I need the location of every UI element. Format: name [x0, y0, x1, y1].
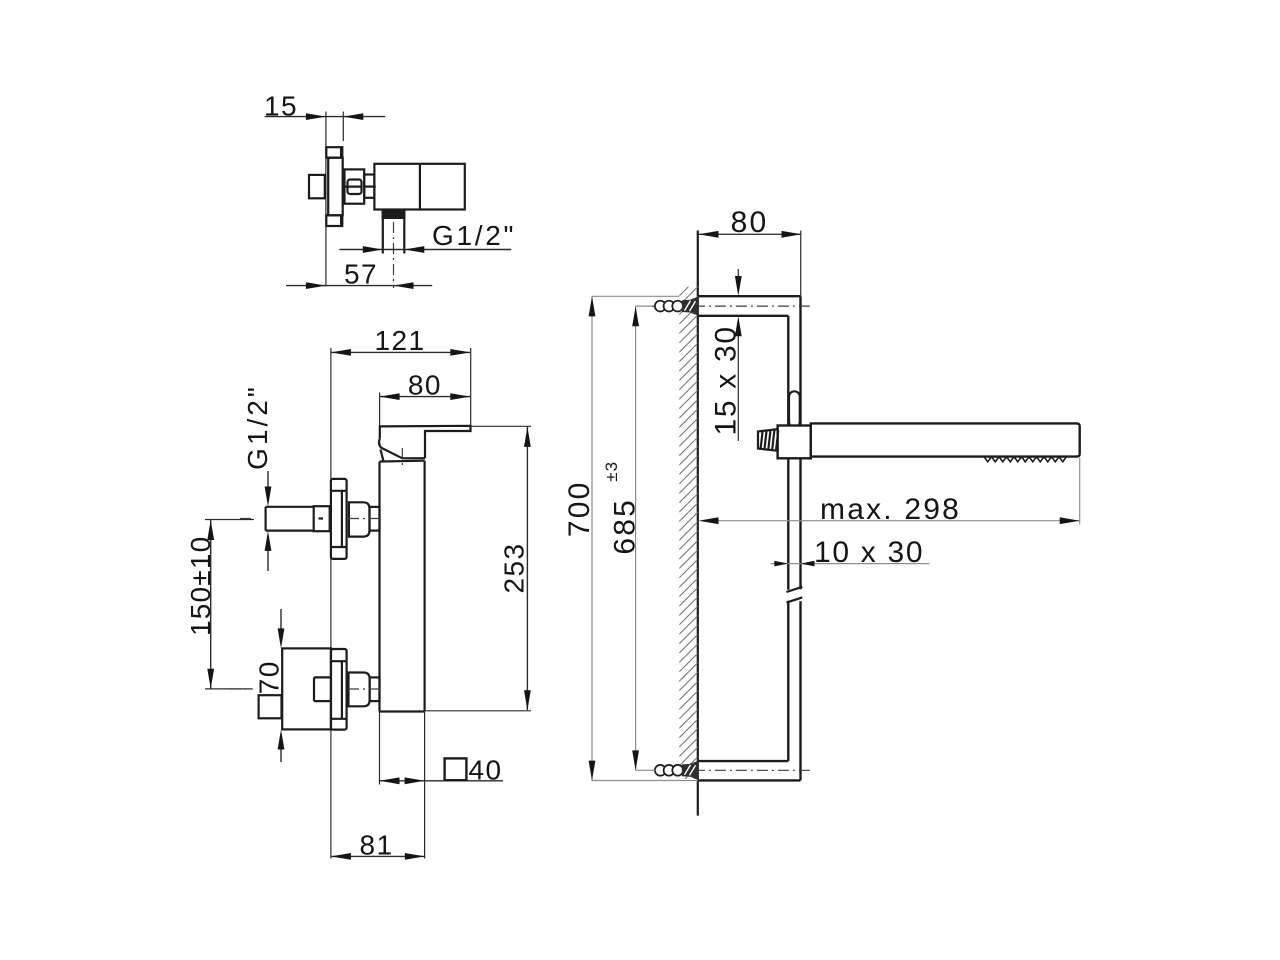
svg-text:150±10: 150±10	[185, 536, 216, 636]
svg-text:685: 685	[608, 498, 641, 555]
svg-text:253: 253	[499, 543, 530, 594]
svg-text:G1/2": G1/2"	[242, 384, 273, 470]
svg-text:80: 80	[731, 206, 769, 239]
svg-text:15: 15	[264, 90, 298, 121]
svg-text:57: 57	[344, 258, 378, 289]
svg-text:70: 70	[254, 660, 285, 694]
svg-text:40: 40	[469, 754, 503, 785]
svg-text:80: 80	[408, 369, 442, 400]
svg-text:700: 700	[563, 480, 596, 537]
svg-text:±3: ±3	[602, 461, 621, 482]
svg-text:15 x 30: 15 x 30	[710, 325, 743, 435]
svg-text:G1/2": G1/2"	[432, 220, 516, 251]
svg-text:max. 298: max. 298	[820, 493, 961, 526]
svg-text:81: 81	[360, 829, 394, 860]
svg-text:10 x 30: 10 x 30	[814, 536, 924, 569]
svg-text:121: 121	[375, 325, 426, 356]
